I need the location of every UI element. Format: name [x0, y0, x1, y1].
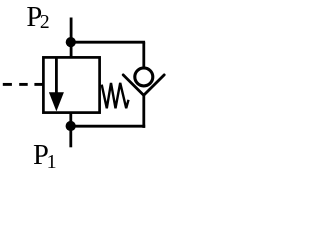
flow path arrowhead: [49, 92, 64, 111]
wire: P1 outlet stem: [69, 112, 72, 147]
wire: bypass bottom horizontal: [71, 125, 145, 128]
wire: bypass right vertical lower: [142, 95, 145, 128]
check valve seat V: [123, 75, 164, 95]
wire: bypass right vertical upper: [142, 42, 145, 67]
node: top junction: [66, 37, 76, 47]
node: bottom junction: [66, 121, 76, 131]
svg-text:2: 2: [40, 12, 50, 33]
wire: bypass top horizontal: [71, 41, 145, 44]
label P1: [33, 140, 57, 173]
flow path arrow shaft: [55, 59, 58, 94]
valve body envelope: [43, 57, 99, 112]
svg-text:1: 1: [47, 151, 57, 173]
pilot dashed line: [3, 83, 43, 86]
wire: P2 inlet stem: [70, 18, 73, 59]
spring: [102, 83, 129, 108]
label P2: [26, 2, 49, 33]
check valve ball: [135, 68, 153, 86]
